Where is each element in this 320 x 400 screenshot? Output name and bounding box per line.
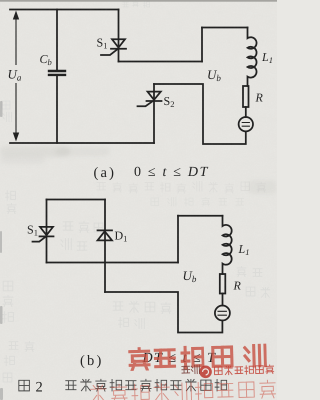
wire: node A horizontal (S1 to load top) xyxy=(119,61,203,63)
wire: bottom rail (a) xyxy=(10,142,154,144)
wire: top rail (a) xyxy=(10,9,119,11)
wire: R to source (lower) xyxy=(222,294,224,306)
wire: S1 branch vertical xyxy=(118,10,120,62)
red watermark: training brand xyxy=(89,344,275,400)
inductor L1 (lower) xyxy=(223,216,232,274)
resistor R (upper) xyxy=(243,86,249,107)
scan top edge band xyxy=(0,0,277,2)
scan smear band below bottom rail xyxy=(0,146,277,194)
wire: S1 branch (b) xyxy=(46,200,48,263)
wire: capacitor branch lower xyxy=(56,76,58,143)
diode D1 xyxy=(98,229,113,231)
wire: bottom side (b) xyxy=(47,262,179,264)
wire: load top (b) xyxy=(178,215,223,217)
DC source symbol (lower) xyxy=(215,306,230,321)
thyristor S2 xyxy=(148,92,161,100)
thyristor S1 (upper) xyxy=(112,39,125,47)
wire: riser to load top (b) xyxy=(177,216,179,263)
wire: top side (b) xyxy=(47,199,106,201)
watermark logo disc xyxy=(199,365,212,378)
faint ghost text band below caption (a) xyxy=(97,182,265,207)
scan left-edge smudges xyxy=(0,101,3,400)
figure caption: fig 2 first-quadrant equivalent circuit xyxy=(19,380,30,391)
wire: capacitor branch upper xyxy=(56,10,58,70)
wire: source to staircase (lower) xyxy=(105,292,222,333)
capacitor Cb plates xyxy=(49,71,65,75)
thyristor S2 branch vertical xyxy=(153,84,155,143)
wire: load loop top (a) xyxy=(202,27,248,29)
paper noise xyxy=(0,0,1,1)
voltage arrow Ua xyxy=(13,11,19,142)
wire: source to load bottom (upper) xyxy=(154,84,246,144)
faint bleed-through ghost text xyxy=(2,0,270,382)
inductor L1 (upper) xyxy=(248,28,257,87)
resistor R (lower) xyxy=(220,274,226,294)
wire: R to source (upper) xyxy=(245,107,247,117)
DC source symbol (upper) xyxy=(239,117,253,131)
wire: D1 branch vertical xyxy=(104,200,106,293)
wire: load loop left riser xyxy=(201,28,203,62)
thyristor S1 (lower) xyxy=(40,227,53,235)
